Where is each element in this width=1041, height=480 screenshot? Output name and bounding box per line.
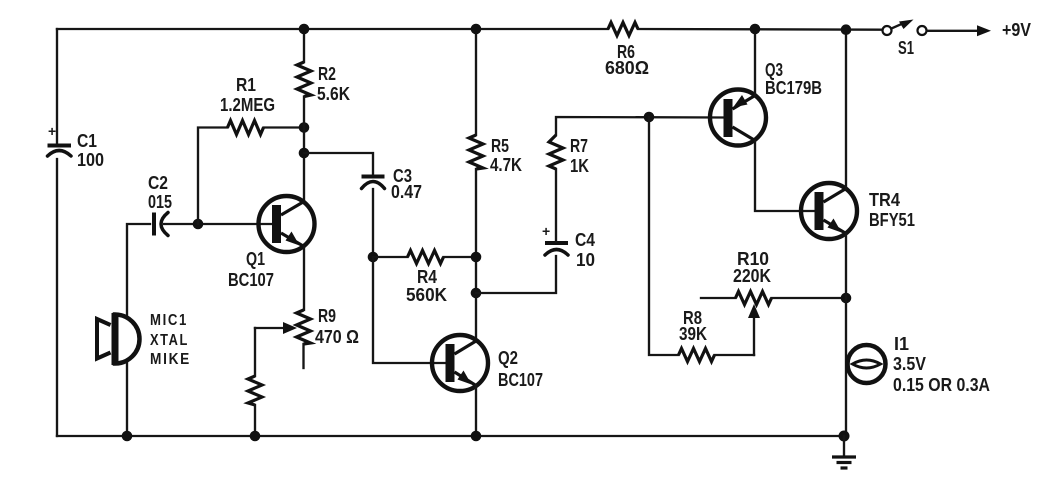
- potentiometer R10: [701, 292, 846, 305]
- wire top supply rail left segment: [57, 28, 608, 30]
- svg-text:1K: 1K: [570, 156, 589, 176]
- svg-text:1.2MEG: 1.2MEG: [220, 95, 275, 115]
- node R7-Q3 base junction: [644, 112, 655, 123]
- label C1: [77, 131, 104, 170]
- label R9: [315, 306, 359, 347]
- transistor Q3 BC179B: [710, 90, 766, 146]
- svg-text:MIKE: MIKE: [150, 351, 191, 368]
- label Q2: [498, 348, 543, 390]
- wire bottom ground rail: [57, 435, 844, 437]
- transistor Q1 BC107: [259, 196, 315, 252]
- wire R8 to wiper: [715, 354, 755, 356]
- svg-text:4.7K: 4.7K: [490, 155, 522, 175]
- svg-text:100: 100: [77, 150, 104, 170]
- svg-text:I1: I1: [894, 334, 909, 354]
- svg-text:BC107: BC107: [228, 270, 274, 290]
- label I1: [893, 334, 990, 395]
- capacitor C1: [48, 123, 72, 156]
- transistor Q2 BC107: [432, 335, 488, 391]
- node C3-R4-Q2base junction: [368, 252, 379, 263]
- wire C4 bottom leg: [476, 256, 556, 293]
- transistor TR4 BFY51: [801, 183, 857, 239]
- label C4: [575, 230, 595, 270]
- label R2: [317, 64, 350, 104]
- capacitor C2: [154, 213, 272, 236]
- resistor R2: [297, 62, 311, 97]
- wire R4 right leg: [444, 256, 477, 258]
- svg-text:Q1: Q1: [246, 249, 265, 269]
- svg-text:BC107: BC107: [498, 370, 543, 390]
- wire C2 branch: corner to mic line: [127, 224, 150, 436]
- svg-text:BFY51: BFY51: [869, 210, 915, 230]
- wire Q2 emitter to rail: [475, 386, 477, 437]
- wire left rail: [56, 29, 58, 143]
- svg-text:R1: R1: [236, 75, 256, 95]
- svg-text:Q3: Q3: [765, 60, 783, 80]
- node mic bottom rail: [122, 431, 133, 442]
- resistor R5: [469, 135, 483, 169]
- label C3: [391, 166, 422, 202]
- label Q3: [765, 60, 822, 98]
- wire to C3: [304, 153, 373, 175]
- svg-text:10: 10: [576, 250, 595, 270]
- svg-text:R4: R4: [417, 267, 437, 287]
- wire R5 bottom: [475, 169, 477, 341]
- wire Q2 base leg: [373, 257, 446, 363]
- microphone MIC1: [97, 313, 139, 365]
- label R6: [605, 42, 649, 78]
- wire TR4 collector to rail: [845, 30, 847, 189]
- svg-text:3.5V: 3.5V: [893, 354, 926, 374]
- lamp I1: [848, 345, 886, 383]
- label R7: [570, 136, 589, 176]
- svg-text:C4: C4: [575, 230, 595, 250]
- label MIC1: [150, 312, 191, 368]
- node base of Q1 / C2-R1 junction: [193, 219, 204, 230]
- svg-text:+: +: [48, 123, 56, 139]
- wire C4 top to R7: [555, 169, 557, 242]
- wire R2 top leg: [303, 29, 305, 62]
- svg-text:XTAL: XTAL: [150, 332, 189, 349]
- wire left rail lower: [56, 159, 58, 436]
- svg-text:+: +: [542, 223, 550, 239]
- ground: [832, 436, 856, 468]
- node C4 return junction: [471, 288, 482, 299]
- wire to bottom rail: [254, 405, 256, 436]
- resistor R7: [549, 135, 563, 169]
- wire R1 right leg: [264, 126, 305, 128]
- svg-text:0.47: 0.47: [391, 182, 422, 202]
- svg-text:R5: R5: [491, 136, 509, 156]
- svg-text:560K: 560K: [406, 285, 447, 305]
- label C2: [148, 173, 172, 212]
- wire Q3 emitter to rail: [754, 29, 756, 96]
- wire R7 top leg: [556, 117, 724, 135]
- resistor R6: [608, 23, 638, 36]
- label R8: [679, 308, 707, 344]
- resistor R4: [408, 251, 444, 264]
- wire wiper down leg: [254, 328, 256, 376]
- label R4: [406, 267, 447, 305]
- wire R5 branch top: [475, 29, 477, 135]
- node top rail R2: [299, 24, 310, 35]
- svg-text:0.15 OR 0.3A: 0.15 OR 0.3A: [893, 375, 990, 395]
- svg-text:+9V: +9V: [1002, 20, 1031, 40]
- svg-text:R7: R7: [570, 136, 588, 156]
- node TR4 emitter R10 junction: [841, 293, 852, 304]
- resistor below R9 wiper: [248, 376, 262, 405]
- wire Q3 collector to TR4 base: [755, 141, 814, 212]
- node top rail R5: [471, 24, 482, 35]
- node Q2 emitter rail: [471, 431, 482, 442]
- wire R2 bottom to collector: [303, 97, 305, 202]
- potentiometer R9: [255, 310, 311, 368]
- resistor R1: [228, 121, 264, 135]
- wire R10 wiper arrow: [748, 304, 760, 355]
- svg-text:5.6K: 5.6K: [317, 84, 350, 104]
- node wiper resistor bottom rail: [250, 431, 261, 442]
- wire to +9V arrow: [927, 25, 991, 36]
- svg-text:TR4: TR4: [869, 190, 900, 210]
- wire Q1 emitter to R9: [303, 247, 305, 311]
- wire R1 left leg: [198, 128, 228, 225]
- label R1: [220, 75, 275, 115]
- node top rail TR4: [841, 24, 852, 35]
- svg-text:Q2: Q2: [498, 348, 518, 368]
- wire R4 left leg: [373, 256, 408, 258]
- node C3 takeoff: [299, 148, 310, 159]
- wire C3 bottom leg: [372, 189, 374, 257]
- node R4-R5 junction: [471, 252, 482, 263]
- resistor R8: [679, 349, 715, 362]
- wire R8 branch vertical: [649, 117, 679, 355]
- svg-text:39K: 39K: [679, 324, 707, 344]
- label TR4: [869, 190, 915, 230]
- label R10: [733, 249, 771, 286]
- switch S1: [883, 20, 927, 36]
- svg-text:R9: R9: [318, 306, 336, 326]
- capacitor C4: [542, 223, 568, 255]
- svg-text:470 Ω: 470 Ω: [315, 327, 359, 347]
- node R1-R2 junction: [299, 122, 310, 133]
- capacitor C3: [362, 177, 385, 189]
- svg-text:C2: C2: [148, 173, 168, 193]
- wire top supply rail right segment: [638, 28, 882, 31]
- svg-text:BC179B: BC179B: [765, 78, 822, 98]
- node top rail Q3: [750, 24, 761, 35]
- svg-text:680Ω: 680Ω: [605, 58, 649, 78]
- svg-text:MIC1: MIC1: [150, 312, 188, 329]
- label Q1: [228, 249, 274, 290]
- node ground rail junction: [839, 431, 850, 442]
- svg-text:C1: C1: [77, 131, 97, 151]
- svg-text:R2: R2: [318, 64, 336, 84]
- svg-text:220K: 220K: [733, 266, 771, 286]
- wire TR4 emitter down past lamp to ground rail: [845, 234, 847, 437]
- svg-text:S1: S1: [898, 38, 914, 58]
- svg-text:015: 015: [148, 192, 172, 212]
- label R5: [490, 136, 522, 175]
